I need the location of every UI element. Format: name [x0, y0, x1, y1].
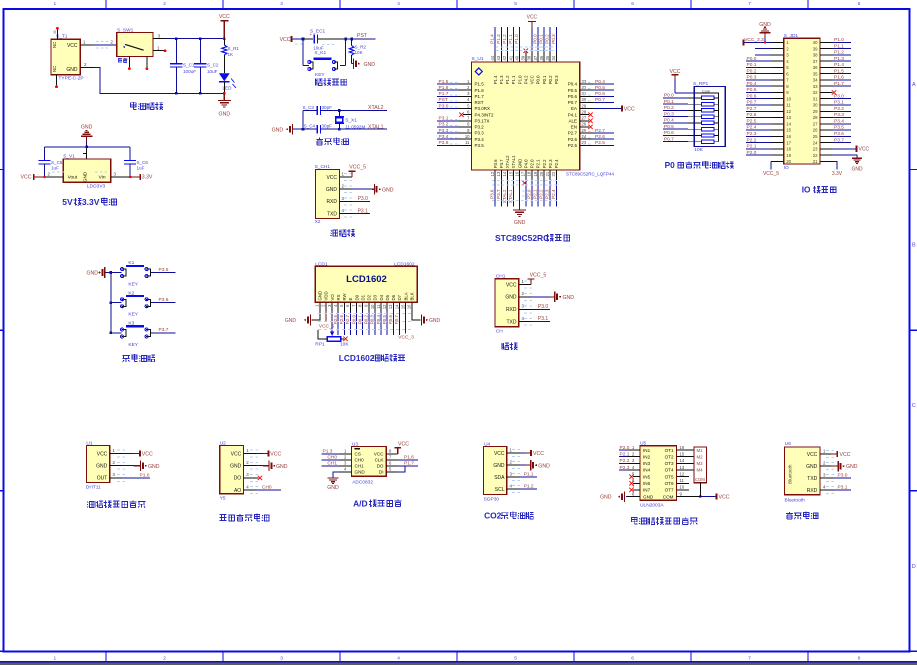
svg-text:41: 41 [508, 55, 513, 60]
svg-text:P1.1: P1.1 [834, 43, 844, 49]
svg-text:15: 15 [786, 128, 791, 133]
svg-text:18: 18 [527, 171, 532, 176]
svg-text:VCC: VCC [398, 442, 409, 448]
svg-text:X2: X2 [315, 219, 321, 225]
svg-text:SDA: SDA [494, 475, 505, 481]
svg-text:1: 1 [53, 1, 56, 7]
svg-text:P1.6: P1.6 [439, 85, 449, 91]
svg-text:20: 20 [539, 171, 544, 176]
svg-text:P2.5: P2.5 [568, 143, 578, 148]
svg-text:24: 24 [813, 140, 818, 145]
svg-text:P2.3: P2.3 [545, 189, 550, 199]
svg-text:P1.7: P1.7 [404, 460, 414, 466]
svg-text:7: 7 [748, 655, 751, 661]
svg-text:GND: GND [318, 291, 323, 301]
svg-text:STC89C52RC_LQFP44: STC89C52RC_LQFP44 [566, 172, 615, 177]
svg-text:P2.3: P2.3 [620, 465, 630, 471]
svg-text:VCC: VCC [21, 175, 32, 181]
svg-text:TXD: TXD [507, 320, 517, 326]
svg-text:16: 16 [680, 445, 685, 450]
svg-text:GND: GND [83, 171, 88, 182]
svg-text:P2.2: P2.2 [620, 458, 630, 464]
svg-text:31: 31 [813, 96, 818, 101]
svg-text:P3.4: P3.4 [475, 137, 485, 142]
svg-text:P0.4: P0.4 [376, 315, 381, 325]
svg-text:GND: GND [851, 167, 863, 173]
svg-text:39: 39 [521, 55, 526, 60]
svg-text:22: 22 [813, 153, 818, 158]
svg-text:K2: K2 [128, 290, 134, 296]
svg-text:P1.3: P1.3 [499, 75, 504, 84]
svg-text:16: 16 [786, 134, 791, 139]
svg-text:P2.7: P2.7 [345, 315, 350, 325]
svg-text:P0.3: P0.3 [551, 34, 556, 44]
svg-text:P0.6: P0.6 [664, 130, 674, 136]
svg-text:35: 35 [813, 71, 818, 76]
svg-text:DHT11: DHT11 [86, 485, 101, 491]
svg-text:AO: AO [234, 488, 241, 494]
svg-text:P2.5: P2.5 [595, 140, 605, 146]
svg-text:P3.6: P3.6 [159, 297, 169, 303]
svg-text:3.3V: 3.3V [82, 197, 100, 207]
svg-text:OUT: OUT [97, 476, 108, 482]
svg-text:GND: GND [493, 463, 505, 469]
svg-text:3.3V: 3.3V [832, 171, 843, 177]
svg-text:IN4: IN4 [643, 468, 651, 473]
svg-text:6: 6 [631, 1, 634, 7]
svg-text:P3.0RX: P3.0RX [475, 106, 491, 111]
svg-text:SGP30: SGP30 [484, 497, 500, 503]
svg-text:26: 26 [582, 122, 587, 127]
svg-text:GND: GND [429, 318, 441, 324]
svg-text:15: 15 [508, 171, 513, 176]
svg-text:P0.3: P0.3 [664, 111, 674, 117]
svg-text:VCC: VCC [719, 495, 730, 501]
svg-text:KEY: KEY [315, 72, 325, 78]
svg-text:P3.7: P3.7 [159, 327, 169, 333]
svg-text:STC89C52RC: STC89C52RC [495, 233, 549, 243]
svg-text:VCC: VCC [859, 147, 870, 153]
svg-text:BLK: BLK [409, 292, 414, 300]
svg-text:11: 11 [680, 478, 685, 483]
svg-text:26: 26 [813, 128, 818, 133]
svg-text:CLK: CLK [375, 458, 385, 463]
svg-text:P1.2: P1.2 [505, 75, 510, 84]
svg-text:P3.7: P3.7 [496, 189, 501, 199]
svg-text:D0: D0 [354, 294, 359, 300]
svg-text:29: 29 [582, 103, 587, 108]
svg-text:P2.4: P2.4 [551, 189, 556, 199]
svg-text:GND: GND [563, 295, 575, 301]
svg-text:1uF: 1uF [137, 165, 145, 170]
svg-text:2: 2 [163, 655, 166, 661]
svg-text:DO: DO [234, 476, 242, 482]
svg-text:P0.1: P0.1 [539, 34, 544, 44]
svg-text:11: 11 [465, 140, 470, 145]
svg-text:P1.7: P1.7 [475, 94, 485, 99]
svg-text:P0.6: P0.6 [388, 315, 393, 325]
svg-text:36: 36 [539, 55, 544, 60]
svg-text:P0.0: P0.0 [747, 56, 757, 62]
svg-text:D5: D5 [385, 294, 390, 300]
svg-text:P1.7: P1.7 [439, 91, 449, 97]
svg-text:P3.0: P3.0 [439, 103, 449, 109]
svg-text:P0.7: P0.7 [664, 136, 674, 142]
svg-text:M3: M3 [697, 461, 704, 466]
svg-text:P2.3: P2.3 [747, 131, 757, 137]
svg-text:P0.4: P0.4 [568, 82, 578, 87]
svg-text:VCC: VCC [527, 14, 538, 20]
svg-text:P2.1: P2.1 [536, 159, 541, 168]
svg-text:S_C3: S_C3 [303, 105, 315, 110]
svg-text:P3.4: P3.4 [439, 134, 449, 140]
svg-text:P2.2: P2.2 [539, 189, 544, 199]
svg-text:P1.0: P1.0 [514, 34, 519, 44]
svg-text:KEY: KEY [128, 312, 138, 318]
svg-text:VCC: VCC [280, 37, 291, 43]
svg-text:P0.1: P0.1 [357, 315, 362, 325]
svg-text:1uF: 1uF [51, 165, 59, 170]
svg-text:P0.0: P0.0 [533, 34, 538, 44]
svg-text:P0.5: P0.5 [747, 87, 757, 93]
svg-text:IO: IO [802, 185, 811, 195]
svg-text:P2.2: P2.2 [747, 137, 757, 143]
svg-text:D4: D4 [379, 294, 384, 300]
svg-text:IO: IO [784, 165, 789, 171]
svg-text:GND: GND [806, 464, 818, 470]
svg-text:P3.1: P3.1 [439, 116, 449, 122]
svg-text:P0.5: P0.5 [382, 315, 387, 325]
svg-text:S_C1: S_C1 [183, 62, 195, 67]
svg-text:P0.2: P0.2 [364, 315, 369, 325]
svg-text:19: 19 [786, 153, 791, 158]
svg-text:P3.5: P3.5 [834, 125, 844, 131]
svg-text:S_K1: S_K1 [314, 50, 326, 56]
svg-text:30pF: 30pF [322, 124, 333, 129]
svg-text:10: 10 [786, 96, 791, 101]
svg-text:P1.0: P1.0 [517, 75, 522, 84]
svg-text:VCC: VCC [530, 75, 535, 84]
svg-text:P1.2: P1.2 [834, 50, 844, 56]
svg-text:GND: GND [285, 318, 297, 324]
svg-text:PST: PST [439, 97, 448, 103]
svg-text:GND: GND [219, 112, 231, 118]
svg-text:NC: NC [52, 42, 57, 48]
svg-text:OT3: OT3 [665, 461, 674, 466]
svg-text:37: 37 [533, 55, 538, 60]
svg-text:M2: M2 [697, 454, 704, 459]
svg-text:5: 5 [514, 655, 517, 661]
svg-text:11.0592M: 11.0592M [345, 124, 365, 129]
svg-text:P1.1: P1.1 [508, 34, 513, 44]
svg-text:34: 34 [551, 55, 556, 60]
svg-text:15: 15 [680, 452, 685, 457]
svg-text:TXD: TXD [807, 476, 817, 482]
svg-text:29: 29 [813, 109, 818, 114]
svg-text:OT4: OT4 [665, 468, 674, 473]
svg-text:K3: K3 [128, 321, 134, 327]
svg-text:D1: D1 [360, 294, 365, 300]
svg-text:P1.3: P1.3 [496, 34, 501, 44]
svg-text:VCC: VCC [374, 452, 384, 457]
svg-text:TYPE-C-2P: TYPE-C-2P [59, 75, 84, 81]
svg-text:M1: M1 [697, 448, 704, 453]
svg-text:VCC: VCC [142, 451, 153, 457]
svg-text:TXD: TXD [327, 211, 337, 217]
svg-text:35: 35 [545, 55, 550, 60]
svg-text:P0.7: P0.7 [595, 97, 605, 103]
svg-text:P2.4: P2.4 [554, 159, 559, 168]
svg-text:P2.6: P2.6 [747, 112, 757, 118]
svg-text:RW: RW [342, 292, 347, 300]
svg-text:GND: GND [600, 495, 612, 501]
svg-text:27: 27 [813, 122, 818, 127]
svg-text:P0.1: P0.1 [542, 75, 547, 84]
svg-text:P2.1: P2.1 [747, 144, 757, 150]
svg-text:U6: U6 [785, 441, 791, 447]
svg-text:P2.3: P2.3 [548, 159, 553, 168]
svg-text:S_R2: S_R2 [355, 44, 367, 49]
svg-text:EN: EN [571, 125, 577, 130]
svg-text:44: 44 [490, 55, 495, 60]
svg-text:IN5: IN5 [643, 474, 651, 479]
svg-text:P1.3: P1.3 [834, 56, 844, 62]
svg-text:GND: GND [505, 295, 517, 301]
svg-text:P0.6: P0.6 [595, 91, 605, 97]
svg-text:P0.1: P0.1 [747, 62, 757, 68]
svg-text:P0.2: P0.2 [747, 68, 757, 74]
svg-text:ALE: ALE [568, 119, 577, 124]
svg-text:RXD: RXD [506, 307, 517, 313]
svg-text:27: 27 [582, 116, 587, 121]
svg-text:K1: K1 [128, 260, 134, 266]
svg-text:P4.1: P4.1 [568, 112, 578, 117]
svg-text:20: 20 [786, 159, 791, 164]
svg-text:38: 38 [813, 53, 818, 58]
svg-text:S_X1: S_X1 [345, 117, 357, 123]
svg-text:15: 15 [400, 304, 405, 309]
svg-text:30pF: 30pF [322, 105, 333, 110]
svg-text:21: 21 [813, 159, 818, 164]
svg-text:IN1: IN1 [643, 448, 651, 453]
svg-text:P2.4: P2.4 [747, 125, 757, 131]
svg-text:GND: GND [230, 464, 242, 470]
svg-text:P3.6: P3.6 [834, 131, 844, 137]
svg-text:P0.3: P0.3 [370, 315, 375, 325]
svg-text:P0.2: P0.2 [545, 34, 550, 44]
svg-text:18: 18 [786, 147, 791, 152]
svg-text:RS: RS [336, 294, 341, 300]
svg-text:P1.0: P1.0 [834, 37, 844, 43]
svg-text:17: 17 [521, 171, 526, 176]
svg-text:KEY: KEY [128, 282, 138, 288]
svg-text:33: 33 [813, 84, 818, 89]
svg-text:40: 40 [813, 40, 818, 45]
svg-text:28: 28 [582, 110, 587, 115]
svg-text:VCC: VCC [67, 43, 78, 49]
svg-text:P0.0: P0.0 [664, 93, 674, 99]
svg-text:VCC: VCC [270, 451, 281, 457]
svg-text:P2.6: P2.6 [339, 315, 344, 325]
svg-text:P0.7: P0.7 [394, 315, 399, 325]
svg-text:4: 4 [397, 655, 400, 661]
svg-text:22: 22 [551, 171, 556, 176]
svg-text:P4.3INT2: P4.3INT2 [475, 112, 495, 117]
svg-text:D7: D7 [397, 294, 402, 300]
svg-text:P1.6: P1.6 [404, 454, 414, 460]
svg-text:38: 38 [527, 55, 532, 60]
svg-text:16: 16 [407, 304, 412, 309]
svg-text:P0.3: P0.3 [554, 75, 559, 84]
svg-text:VCC_5: VCC_5 [763, 171, 779, 177]
svg-text:P0.2: P0.2 [548, 75, 553, 84]
svg-text:LCD1602: LCD1602 [346, 274, 387, 285]
svg-text:OT7: OT7 [665, 488, 674, 493]
svg-text:P3.5: P3.5 [159, 267, 169, 273]
svg-text:OT1: OT1 [665, 448, 674, 453]
svg-text:GND: GND [514, 220, 526, 226]
svg-text:14: 14 [394, 304, 399, 309]
svg-text:3: 3 [280, 655, 283, 661]
svg-text:12: 12 [680, 472, 685, 477]
svg-text:VCC_3.3: VCC_3.3 [744, 37, 764, 43]
svg-text:14: 14 [786, 122, 791, 127]
svg-text:COM: COM [695, 477, 705, 482]
svg-text:P3.3: P3.3 [834, 112, 844, 118]
svg-text:XTAL2: XTAL2 [505, 155, 510, 168]
svg-text:P0.3: P0.3 [747, 75, 757, 81]
svg-text:11: 11 [376, 304, 381, 309]
svg-text:BLA: BLA [403, 292, 408, 300]
svg-text:Y5: Y5 [220, 496, 226, 502]
svg-text:D3: D3 [373, 294, 378, 300]
svg-text:ADC0832: ADC0832 [352, 479, 373, 485]
svg-text:21: 21 [545, 171, 550, 176]
svg-text:4: 4 [397, 1, 400, 7]
svg-text:16: 16 [514, 171, 519, 176]
svg-text:RXD: RXD [326, 199, 337, 205]
svg-text:D6: D6 [391, 294, 396, 300]
svg-text:17: 17 [786, 140, 791, 145]
svg-text:DI: DI [379, 470, 384, 475]
svg-text:13: 13 [786, 115, 791, 120]
svg-text:1K: 1K [228, 52, 235, 57]
svg-text:11: 11 [786, 103, 791, 108]
svg-text:100uF: 100uF [183, 69, 196, 74]
svg-text:CH0: CH0 [355, 458, 365, 463]
svg-text:10: 10 [465, 134, 470, 139]
svg-text:A/D: A/D [353, 498, 367, 508]
svg-text:VCC: VCC [533, 451, 544, 457]
svg-text:28: 28 [813, 115, 818, 120]
svg-text:2: 2 [163, 1, 166, 7]
svg-text:P0.1: P0.1 [664, 99, 674, 105]
svg-text:10uF: 10uF [207, 69, 218, 74]
svg-text:VCC: VCC [624, 106, 635, 112]
svg-text:P0.4: P0.4 [747, 81, 757, 87]
svg-text:IN3: IN3 [643, 461, 651, 466]
svg-text:32: 32 [813, 90, 818, 95]
svg-text:ULN2003A: ULN2003A [640, 502, 664, 508]
svg-text:LDO3V3: LDO3V3 [87, 183, 106, 189]
svg-text:P0.5: P0.5 [595, 85, 605, 91]
svg-text:RXD: RXD [807, 488, 818, 494]
svg-text:P2.7: P2.7 [568, 131, 578, 136]
svg-text:VDD: VDD [324, 291, 329, 300]
svg-text:GND: GND [355, 470, 366, 475]
svg-text:P0: P0 [665, 160, 676, 170]
svg-text:P2.5: P2.5 [747, 119, 757, 125]
svg-text:Vin: Vin [99, 174, 106, 180]
svg-text:P2.7: P2.7 [595, 128, 605, 134]
svg-text:P1.5: P1.5 [475, 82, 485, 87]
svg-text:S_U1: S_U1 [472, 56, 484, 62]
svg-text:P3.5: P3.5 [439, 140, 449, 146]
svg-text:P3.1TX: P3.1TX [475, 119, 490, 124]
svg-text:S_EC1: S_EC1 [310, 29, 326, 35]
svg-text:30: 30 [813, 103, 818, 108]
svg-text:RP1: RP1 [315, 341, 325, 347]
svg-text:S_C2: S_C2 [207, 62, 219, 67]
svg-text:GND: GND [517, 159, 522, 169]
svg-text:3.3V: 3.3V [142, 175, 153, 181]
svg-text:IN7: IN7 [643, 488, 651, 493]
svg-text:12: 12 [382, 304, 387, 309]
svg-text:P0.0: P0.0 [536, 75, 541, 84]
svg-text:E: E [348, 298, 353, 301]
svg-text:P3.1: P3.1 [834, 100, 844, 106]
svg-text:CH: CH [496, 328, 503, 334]
svg-text:13: 13 [388, 304, 393, 309]
svg-text:S_C6: S_C6 [137, 160, 149, 165]
svg-text:GND: GND [846, 464, 858, 470]
svg-text:GND: GND [87, 271, 99, 277]
svg-text:P0.6: P0.6 [568, 94, 578, 99]
svg-text:GND: GND [148, 464, 160, 470]
svg-text:8: 8 [858, 655, 861, 661]
svg-text:GND: GND [643, 494, 654, 499]
svg-text:OT5: OT5 [665, 474, 674, 479]
svg-text:XTAL2: XTAL2 [368, 105, 384, 111]
svg-text:IN6: IN6 [643, 481, 651, 486]
svg-text:SCL: SCL [495, 487, 505, 493]
svg-text:P2.0: P2.0 [747, 150, 757, 156]
svg-text:10K: 10K [340, 341, 349, 347]
svg-text:CH1: CH1 [355, 464, 365, 469]
svg-text:P2.6: P2.6 [568, 137, 578, 142]
svg-text:P3.5: P3.5 [475, 143, 485, 148]
svg-text:P3.6: P3.6 [493, 159, 498, 168]
svg-text:P2.6: P2.6 [595, 134, 605, 140]
svg-text:CH0: CH0 [262, 484, 272, 490]
svg-text:KEY: KEY [128, 342, 138, 348]
svg-text:COM: COM [663, 494, 674, 499]
svg-text:P3.3: P3.3 [439, 128, 449, 134]
svg-text:XTAL1: XTAL1 [511, 155, 516, 168]
svg-text:P4.0: P4.0 [524, 159, 529, 168]
svg-text:23: 23 [813, 147, 818, 152]
svg-text:EA: EA [571, 106, 577, 111]
svg-text:VCC_3: VCC_3 [398, 335, 414, 341]
svg-text:VO: VO [330, 294, 335, 301]
svg-text:GND: GND [538, 463, 550, 469]
svg-text:P2.1: P2.1 [533, 189, 538, 199]
svg-text:S_R1: S_R1 [228, 46, 240, 51]
svg-text:NC: NC [52, 66, 57, 72]
svg-text:S_C4: S_C4 [304, 124, 316, 129]
svg-text:P3.2: P3.2 [834, 106, 844, 112]
svg-text:IN2: IN2 [643, 454, 651, 459]
